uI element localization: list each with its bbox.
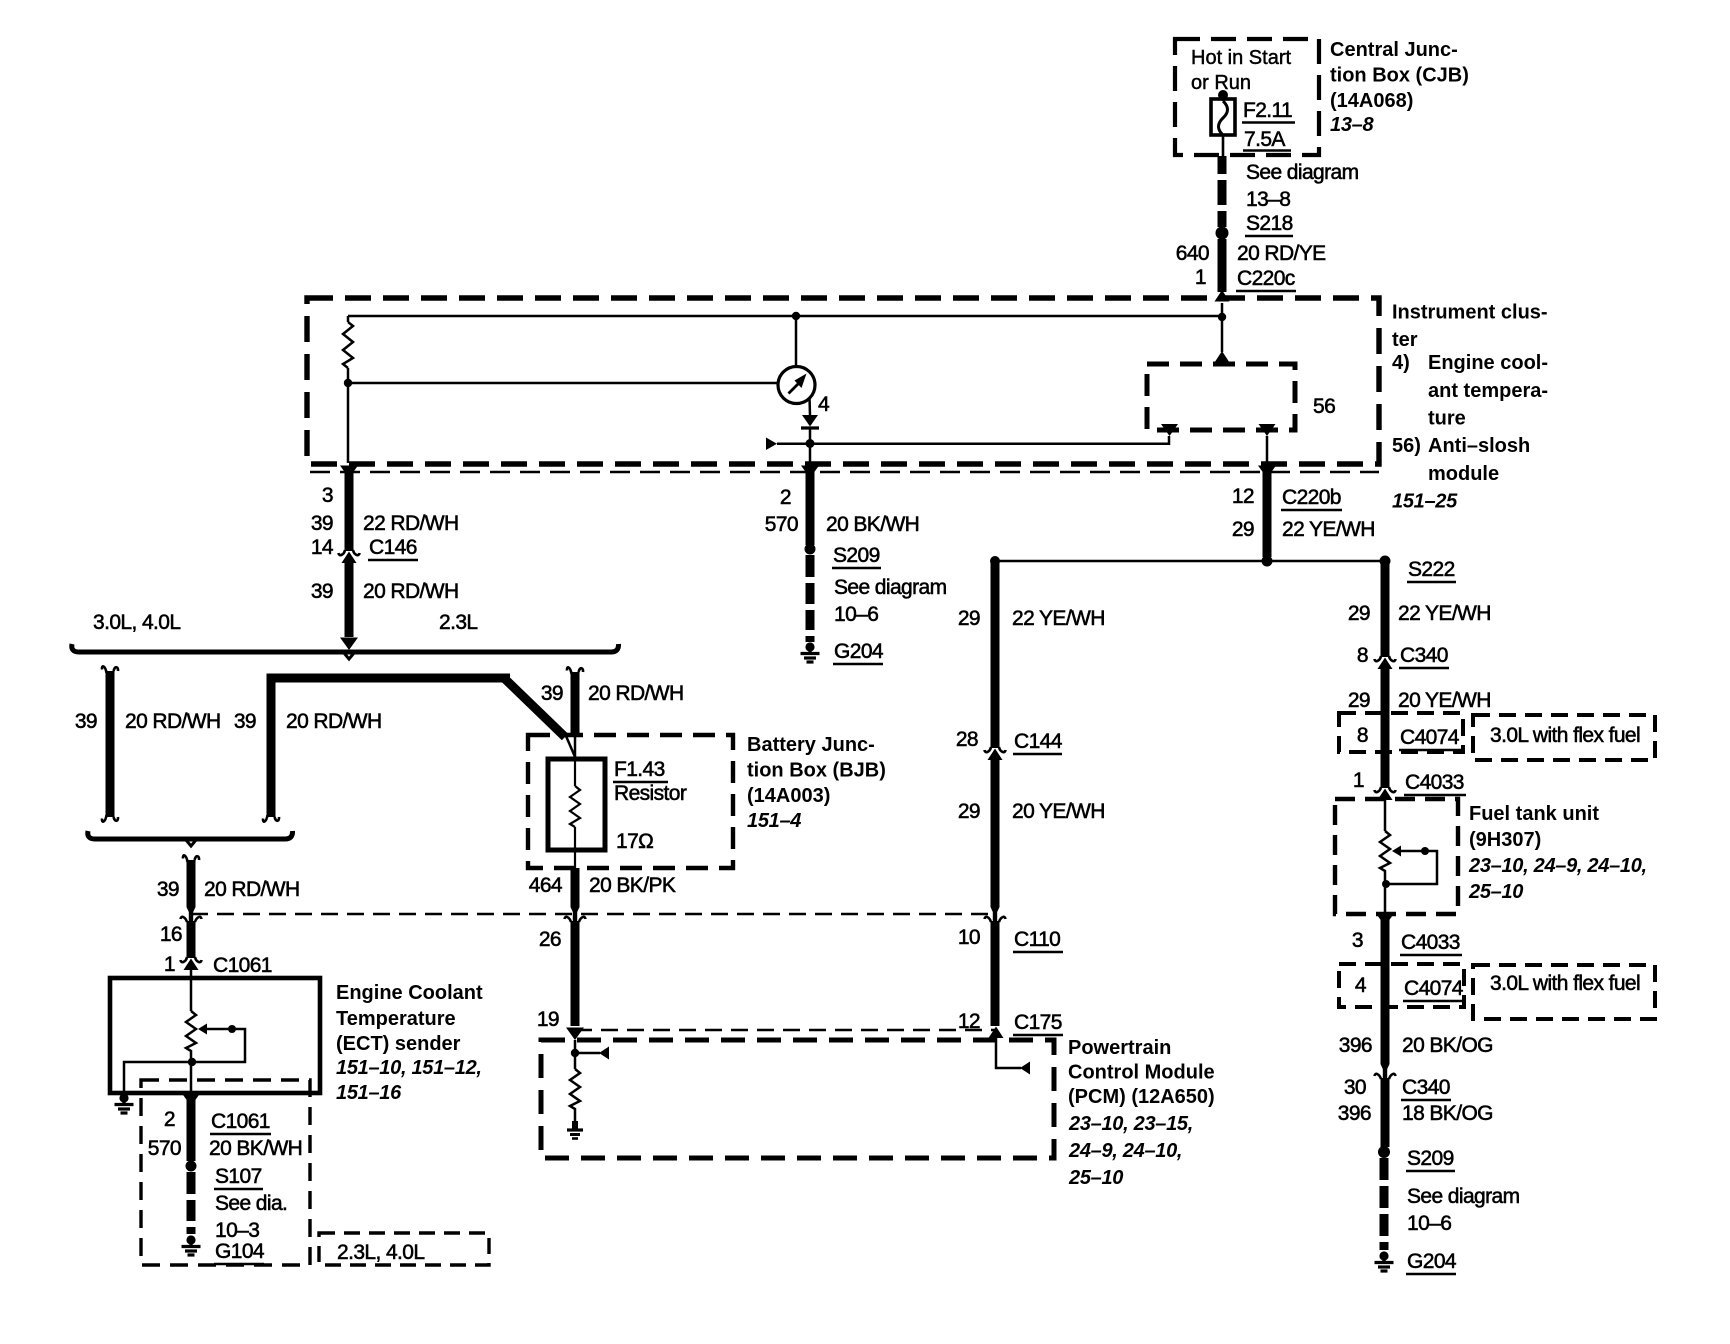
svg-text:570: 570: [765, 513, 798, 536]
Battery Junction Box outline: [528, 735, 733, 868]
svg-text:39: 39: [311, 580, 333, 603]
BJB name label: [747, 734, 886, 832]
fuel tank internal wire: [1384, 800, 1387, 831]
svg-text:Hot in Start: Hot in Start: [1191, 47, 1291, 69]
svg-text:7.5A: 7.5A: [1244, 128, 1285, 151]
ECT sender name label: [336, 982, 483, 1104]
svg-text:20 RD/WH: 20 RD/WH: [286, 710, 382, 733]
svg-text:464: 464: [529, 874, 563, 897]
connector row line C175 (dashed): [575, 1029, 995, 1032]
svg-text:C144: C144: [1014, 730, 1063, 753]
svg-text:396: 396: [1338, 1102, 1371, 1125]
wire C144 to C110 (29 20 YE/WH): [991, 760, 1000, 907]
svg-text:29: 29: [958, 800, 980, 823]
svg-text:56: 56: [1313, 395, 1335, 418]
svg-text:56): 56): [1392, 435, 1421, 457]
svg-text:3.0L with flex fuel: 3.0L with flex fuel: [1490, 972, 1640, 995]
Central Junction Box (CJB) outline: [1175, 39, 1319, 155]
wire S222 tie line: [995, 560, 1385, 563]
fuse F2.11 symbol: [1211, 95, 1235, 156]
labels see diagram 13-8 S218: [1245, 161, 1359, 236]
ground G204 (right): [1375, 1251, 1394, 1271]
PCM internal C175 arrow: [1020, 1062, 1030, 1075]
fuel tank wiper arrow: [1382, 846, 1437, 889]
wire 2.3L diagonal into BJB: [504, 678, 565, 737]
wire C340 to S209 (396 18 BK/OG): [1381, 1078, 1390, 1147]
svg-text:8: 8: [1357, 724, 1368, 747]
svg-text:C340: C340: [1400, 644, 1448, 667]
anti-slosh module 56 box: [1147, 364, 1295, 430]
connector row line C220 (thin dashed): [310, 471, 1379, 474]
fuel tank sender element: [1380, 831, 1390, 914]
svg-text:See diagram: See diagram: [1407, 1185, 1520, 1208]
resistor F1.43 element: [570, 760, 580, 868]
wire C146 to engine split (39 20 RD/WH): [345, 563, 354, 637]
svg-text:C4033: C4033: [1405, 771, 1464, 794]
PCM internal sense wire: [574, 1040, 577, 1069]
wire to C1061 (pin 16): [187, 921, 196, 958]
wire ECT to S107 (570 20 BK/WH): [187, 1097, 196, 1161]
svg-text:13–8: 13–8: [1330, 114, 1374, 136]
PCM internal C175 wire: [996, 1034, 1021, 1068]
svg-text:39: 39: [311, 512, 333, 535]
svg-text:29: 29: [958, 607, 980, 630]
wire gauge bottom: [808, 398, 811, 416]
svg-text:Temperature: Temperature: [336, 1008, 456, 1030]
svg-text:Anti–slosh: Anti–slosh: [1428, 435, 1530, 457]
arrow into anti-slosh module: [1215, 351, 1230, 363]
splice junction dot (left): [990, 556, 1000, 566]
svg-text:C4033: C4033: [1401, 931, 1460, 954]
svg-text:16: 16: [160, 923, 182, 946]
svg-text:Resistor: Resistor: [614, 782, 687, 805]
junction node (gauge/supply): [792, 312, 800, 320]
svg-text:10–3: 10–3: [215, 1219, 259, 1242]
svg-text:19: 19: [537, 1008, 559, 1031]
svg-text:See diagram: See diagram: [834, 576, 947, 599]
svg-text:(14A068): (14A068): [1330, 90, 1413, 112]
wire C340 to C4074 (29 20 YE/WH): [1381, 669, 1390, 788]
wire C220b to S222 (29 22 YE/WH): [1263, 469, 1272, 557]
wire 2.3L branch (39 20 RD/WH): [271, 678, 510, 817]
wire CJB to S218 (dashed thick): [1218, 156, 1227, 227]
arrow into engine option region: [181, 907, 202, 922]
diode symbol below gauge: [801, 415, 819, 428]
connector symbol at C110 row: [565, 907, 586, 922]
fuse F2.11 7.5A node dot: [1218, 90, 1228, 100]
see diagram 10-3 note: [215, 1192, 287, 1242]
wire 3.0L/4.0L branch bottom hook: [102, 815, 118, 822]
signal arrow (from other circuit): [766, 438, 777, 451]
wire to ECT sender hook: [183, 855, 199, 862]
cluster internal wire to anti-slosh module: [777, 436, 1169, 444]
arrow into engine split bracket: [340, 638, 358, 651]
svg-text:26: 26: [539, 928, 561, 951]
option note box 3.0L with flex fuel (upper): [1473, 715, 1655, 760]
svg-text:30: 30: [1344, 1076, 1366, 1099]
wire S222 to C144 (29 22 YE/WH): [991, 561, 1000, 748]
svg-text:ter: ter: [1392, 329, 1418, 351]
resistor label F1.43 / Resistor: [613, 758, 687, 805]
fuse label F2.11 / 7.5A: [1242, 99, 1295, 151]
svg-text:24–9, 24–10,: 24–9, 24–10,: [1068, 1140, 1182, 1162]
svg-text:151–4: 151–4: [747, 810, 801, 832]
wire BJB to C110 row (464 20 BK/PK): [571, 868, 580, 907]
svg-text:20 YE/WH: 20 YE/WH: [1398, 689, 1491, 712]
svg-text:Instrument clus-: Instrument clus-: [1392, 302, 1548, 324]
svg-text:(14A003): (14A003): [747, 785, 830, 807]
svg-text:Engine cool-: Engine cool-: [1428, 352, 1548, 374]
wire C220c into cluster: [1221, 303, 1224, 352]
connector C4033 symbol: [1375, 787, 1396, 800]
svg-text:G204: G204: [1407, 1250, 1457, 1273]
wire C4074 to C340 (396 20 BK/OG): [1381, 1007, 1390, 1064]
cluster internal supply wire (top): [348, 315, 1222, 318]
svg-text:Battery Junc-: Battery Junc-: [747, 734, 875, 756]
fuel tank pin 3 exit arrow: [1376, 914, 1394, 927]
svg-text:10–6: 10–6: [834, 603, 878, 626]
cluster pin 2 exit arrow: [801, 466, 819, 479]
svg-text:Engine Coolant: Engine Coolant: [336, 982, 483, 1004]
svg-text:tion Box (CJB): tion Box (CJB): [1330, 65, 1469, 87]
wire S209 to G204 (dashed thick, right): [1380, 1158, 1389, 1250]
svg-text:39: 39: [75, 710, 97, 733]
splice S222 junction dot (C220b): [1262, 556, 1273, 567]
svg-text:10: 10: [958, 926, 980, 949]
svg-text:4: 4: [818, 393, 830, 416]
svg-text:28: 28: [956, 728, 978, 751]
svg-text:4: 4: [1355, 974, 1367, 997]
cluster internal wire to gauge: [348, 382, 778, 385]
Fuel tank unit outline: [1335, 799, 1458, 914]
svg-text:2: 2: [780, 486, 791, 509]
svg-text:C146: C146: [369, 536, 417, 559]
svg-text:13–8: 13–8: [1246, 188, 1290, 211]
arrow into PCM: [566, 1028, 584, 1041]
svg-text:396: 396: [1339, 1034, 1372, 1057]
connector C1061 symbol: [181, 957, 202, 970]
svg-text:20 BK/OG: 20 BK/OG: [1402, 1034, 1493, 1057]
ECT sender outline: [110, 978, 320, 1093]
ECT internal wire: [190, 970, 193, 1011]
connector C175 arrow into PCM: [989, 1027, 1004, 1039]
wire 2.3L branch bottom hook: [263, 815, 279, 822]
svg-text:29: 29: [1348, 689, 1370, 712]
svg-text:Control Module: Control Module: [1068, 1062, 1215, 1084]
svg-text:14: 14: [311, 536, 334, 559]
wire pin2 to S209 (570 20 BK/WH): [806, 469, 815, 545]
svg-text:3: 3: [322, 484, 333, 507]
svg-text:20 RD/WH: 20 RD/WH: [588, 682, 684, 705]
svg-text:23–10, 24–9, 24–10,: 23–10, 24–9, 24–10,: [1468, 855, 1647, 877]
svg-text:20 RD/WH: 20 RD/WH: [363, 580, 459, 603]
svg-text:151–10, 151–12,: 151–10, 151–12,: [336, 1057, 482, 1079]
svg-text:1: 1: [164, 953, 175, 976]
svg-text:Fuel tank unit: Fuel tank unit: [1469, 803, 1599, 825]
option legend box 2.3L, 4.0L: [319, 1233, 489, 1265]
wire S222 to C340 (29 22 YE/WH): [1381, 561, 1390, 657]
svg-text:20 RD/YE: 20 RD/YE: [1237, 242, 1326, 265]
svg-text:S209: S209: [833, 544, 880, 567]
svg-text:See dia.: See dia.: [215, 1192, 287, 1215]
svg-text:3.0L, 4.0L: 3.0L, 4.0L: [93, 611, 180, 634]
svg-text:18 BK/OG: 18 BK/OG: [1402, 1102, 1493, 1125]
svg-text:20 BK/WH: 20 BK/WH: [826, 513, 919, 536]
wire into BJB (39 20 RD/WH): [571, 672, 580, 736]
CJB name label: [1330, 39, 1469, 136]
svg-text:20 RD/WH: 20 RD/WH: [204, 878, 300, 901]
svg-text:Central Junc-: Central Junc-: [1330, 39, 1458, 61]
merge bracket tick: [186, 840, 196, 846]
svg-text:640: 640: [1176, 242, 1209, 265]
Fuel tank unit name label: [1468, 803, 1647, 903]
cluster internal resistor: [343, 316, 353, 383]
resistor F1.43 body: [548, 759, 605, 850]
svg-text:C4074: C4074: [1404, 977, 1464, 1000]
wire C110 to C175 (pin 12): [991, 921, 1000, 1026]
svg-text:Powertrain: Powertrain: [1068, 1037, 1171, 1059]
ground G204 (center): [801, 642, 820, 662]
see diagram 10-6 note (right): [1407, 1185, 1520, 1235]
wire 3.0L/4.0L branch hook: [102, 666, 118, 673]
CJB condition label "Hot in Start or Run": [1191, 47, 1291, 94]
junction node (C220c/supply wire): [1218, 313, 1226, 321]
junction node (diode/anti-slosh wire): [806, 439, 815, 448]
svg-text:2.3L: 2.3L: [439, 611, 477, 634]
svg-text:G204: G204: [834, 640, 884, 663]
svg-text:2: 2: [164, 1108, 175, 1131]
connector C4074 box (lower): [1339, 964, 1464, 1007]
svg-text:12: 12: [958, 1010, 980, 1033]
cluster pin 3 exit arrow: [340, 466, 358, 479]
splice S209 junction dot (right): [1378, 1146, 1390, 1158]
svg-text:22 YE/WH: 22 YE/WH: [1012, 607, 1105, 630]
svg-text:(PCM) (12A650): (PCM) (12A650): [1068, 1086, 1215, 1108]
gauge 4 (engine coolant temperature): [778, 367, 815, 404]
cluster pin 12 exit arrow: [1258, 466, 1276, 479]
PCM name label: [1068, 1037, 1215, 1189]
wire pin3 to C146 (39 22 RD/WH): [345, 469, 354, 551]
svg-text:22 RD/WH: 22 RD/WH: [363, 512, 459, 535]
engine split bracket: [72, 644, 619, 659]
svg-text:C110: C110: [1014, 928, 1060, 951]
svg-text:20 BK/PK: 20 BK/PK: [589, 874, 676, 897]
connector C340 symbol: [1375, 656, 1396, 669]
svg-text:570: 570: [148, 1137, 181, 1160]
svg-text:C1061: C1061: [211, 1110, 270, 1133]
svg-text:25–10: 25–10: [1068, 1167, 1123, 1189]
connector C220c male arrow: [1215, 290, 1230, 302]
svg-text:10–6: 10–6: [1407, 1212, 1451, 1235]
svg-text:S107: S107: [215, 1165, 262, 1188]
wire S209 to G204 (dashed thick): [806, 555, 815, 642]
splice S222 junction dot (right): [1380, 556, 1391, 567]
svg-text:151–16: 151–16: [336, 1082, 402, 1104]
splice S107 junction dot: [186, 1161, 197, 1172]
svg-text:1: 1: [1353, 769, 1364, 792]
splice S218 junction dot: [1216, 227, 1229, 240]
wire anti-slosh to C220b: [1266, 436, 1269, 464]
svg-text:C175: C175: [1014, 1011, 1062, 1034]
ground G104: [182, 1235, 201, 1255]
wire fuel tank to C4074: [1381, 917, 1390, 1010]
PCM internal junction dot: [571, 1049, 579, 1057]
merge bracket below branches: [88, 831, 293, 839]
svg-text:C4074: C4074: [1400, 726, 1460, 749]
wire to C175 row (pin 26/19): [571, 921, 580, 1026]
svg-text:S218: S218: [1246, 212, 1293, 235]
svg-text:17Ω: 17Ω: [616, 830, 653, 853]
wire gauge top to supply: [795, 316, 798, 367]
wire 3.0L/4.0L branch (39 20 RD/WH): [106, 671, 115, 817]
svg-text:S209: S209: [1407, 1147, 1454, 1170]
ECT thermistor element: [186, 1011, 196, 1093]
cluster internal wire down to pin 3: [347, 383, 350, 463]
svg-text:C340: C340: [1402, 1076, 1450, 1099]
wire S107 to G104 (dashed thick): [187, 1172, 196, 1234]
PCM internal resistor: [570, 1069, 580, 1121]
svg-text:ant tempera-: ant tempera-: [1428, 380, 1548, 402]
Instrument cluster name label: [1392, 302, 1548, 513]
svg-text:1: 1: [1195, 266, 1206, 289]
svg-text:39: 39: [157, 878, 179, 901]
ECT case ground: [115, 1093, 134, 1113]
svg-text:22 YE/WH: 22 YE/WH: [1282, 518, 1375, 541]
svg-text:tion Box (BJB): tion Box (BJB): [747, 760, 886, 782]
connector C4074 box (upper): [1339, 713, 1463, 752]
connector C144 symbol: [985, 747, 1006, 760]
svg-text:C220c: C220c: [1237, 267, 1295, 290]
connector row line C110 (dashed): [191, 913, 995, 916]
svg-text:F1.43: F1.43: [614, 758, 665, 781]
svg-text:C220b: C220b: [1282, 486, 1341, 509]
ECT wiper arrow: [124, 1024, 245, 1094]
svg-text:8: 8: [1357, 644, 1368, 667]
svg-text:22 YE/WH: 22 YE/WH: [1398, 602, 1491, 625]
anti-slosh module output arrow (right): [1259, 424, 1276, 436]
connector C110 symbol: [985, 907, 1006, 922]
svg-text:F2.11: F2.11: [1243, 99, 1292, 122]
Instrument cluster outline: [307, 298, 1379, 464]
wire diode to junction: [809, 428, 812, 463]
svg-text:2.3L, 4.0L: 2.3L, 4.0L: [337, 1241, 424, 1264]
svg-text:151–25: 151–25: [1392, 491, 1458, 513]
svg-text:29: 29: [1232, 518, 1254, 541]
svg-text:C1061: C1061: [213, 954, 272, 977]
Powertrain Control Module outline: [541, 1040, 1054, 1158]
svg-text:(9H307): (9H307): [1469, 829, 1541, 851]
svg-text:4): 4): [1392, 352, 1410, 374]
svg-text:39: 39: [234, 710, 256, 733]
svg-text:20 YE/WH: 20 YE/WH: [1012, 800, 1105, 823]
svg-text:3: 3: [1352, 929, 1363, 952]
connector C340 symbol (lower): [1375, 1064, 1396, 1079]
BJB internal feed wires: [566, 736, 576, 760]
engine option region outline (2.3L 4.0L): [141, 1080, 310, 1265]
svg-text:39: 39: [541, 682, 563, 705]
ECT pin 2 exit arrow: [182, 1094, 200, 1107]
svg-text:20 BK/WH: 20 BK/WH: [209, 1137, 302, 1160]
svg-text:23–10, 23–15,: 23–10, 23–15,: [1068, 1113, 1193, 1135]
see diagram 10-6 note: [834, 576, 947, 626]
anti-slosh module output arrow (left): [1161, 424, 1178, 436]
svg-text:12: 12: [1232, 485, 1254, 508]
PCM internal ground: [567, 1121, 583, 1139]
svg-text:See diagram: See diagram: [1246, 161, 1359, 184]
svg-text:G104: G104: [215, 1240, 265, 1263]
junction node (resistor/gauge wire): [344, 379, 352, 387]
splice S209 junction dot: [805, 544, 816, 555]
svg-text:25–10: 25–10: [1468, 881, 1523, 903]
svg-text:29: 29: [1348, 602, 1370, 625]
connector C146 symbol: [339, 550, 360, 563]
svg-text:module: module: [1428, 463, 1499, 485]
svg-text:ture: ture: [1428, 408, 1466, 430]
svg-text:S222: S222: [1408, 558, 1455, 581]
option note box 3.0L with flex fuel (lower): [1473, 965, 1655, 1019]
svg-text:(ECT) sender: (ECT) sender: [336, 1033, 461, 1055]
PCM internal branch arrow: [575, 1047, 609, 1060]
svg-text:3.0L with flex fuel: 3.0L with flex fuel: [1490, 724, 1640, 747]
wire S218 to C220c (640 20 RD/YE): [1218, 239, 1227, 292]
wire to ECT sender (39 20 RD/WH): [187, 860, 196, 907]
wire into BJB hook: [567, 667, 583, 674]
svg-text:20 RD/WH: 20 RD/WH: [125, 710, 221, 733]
